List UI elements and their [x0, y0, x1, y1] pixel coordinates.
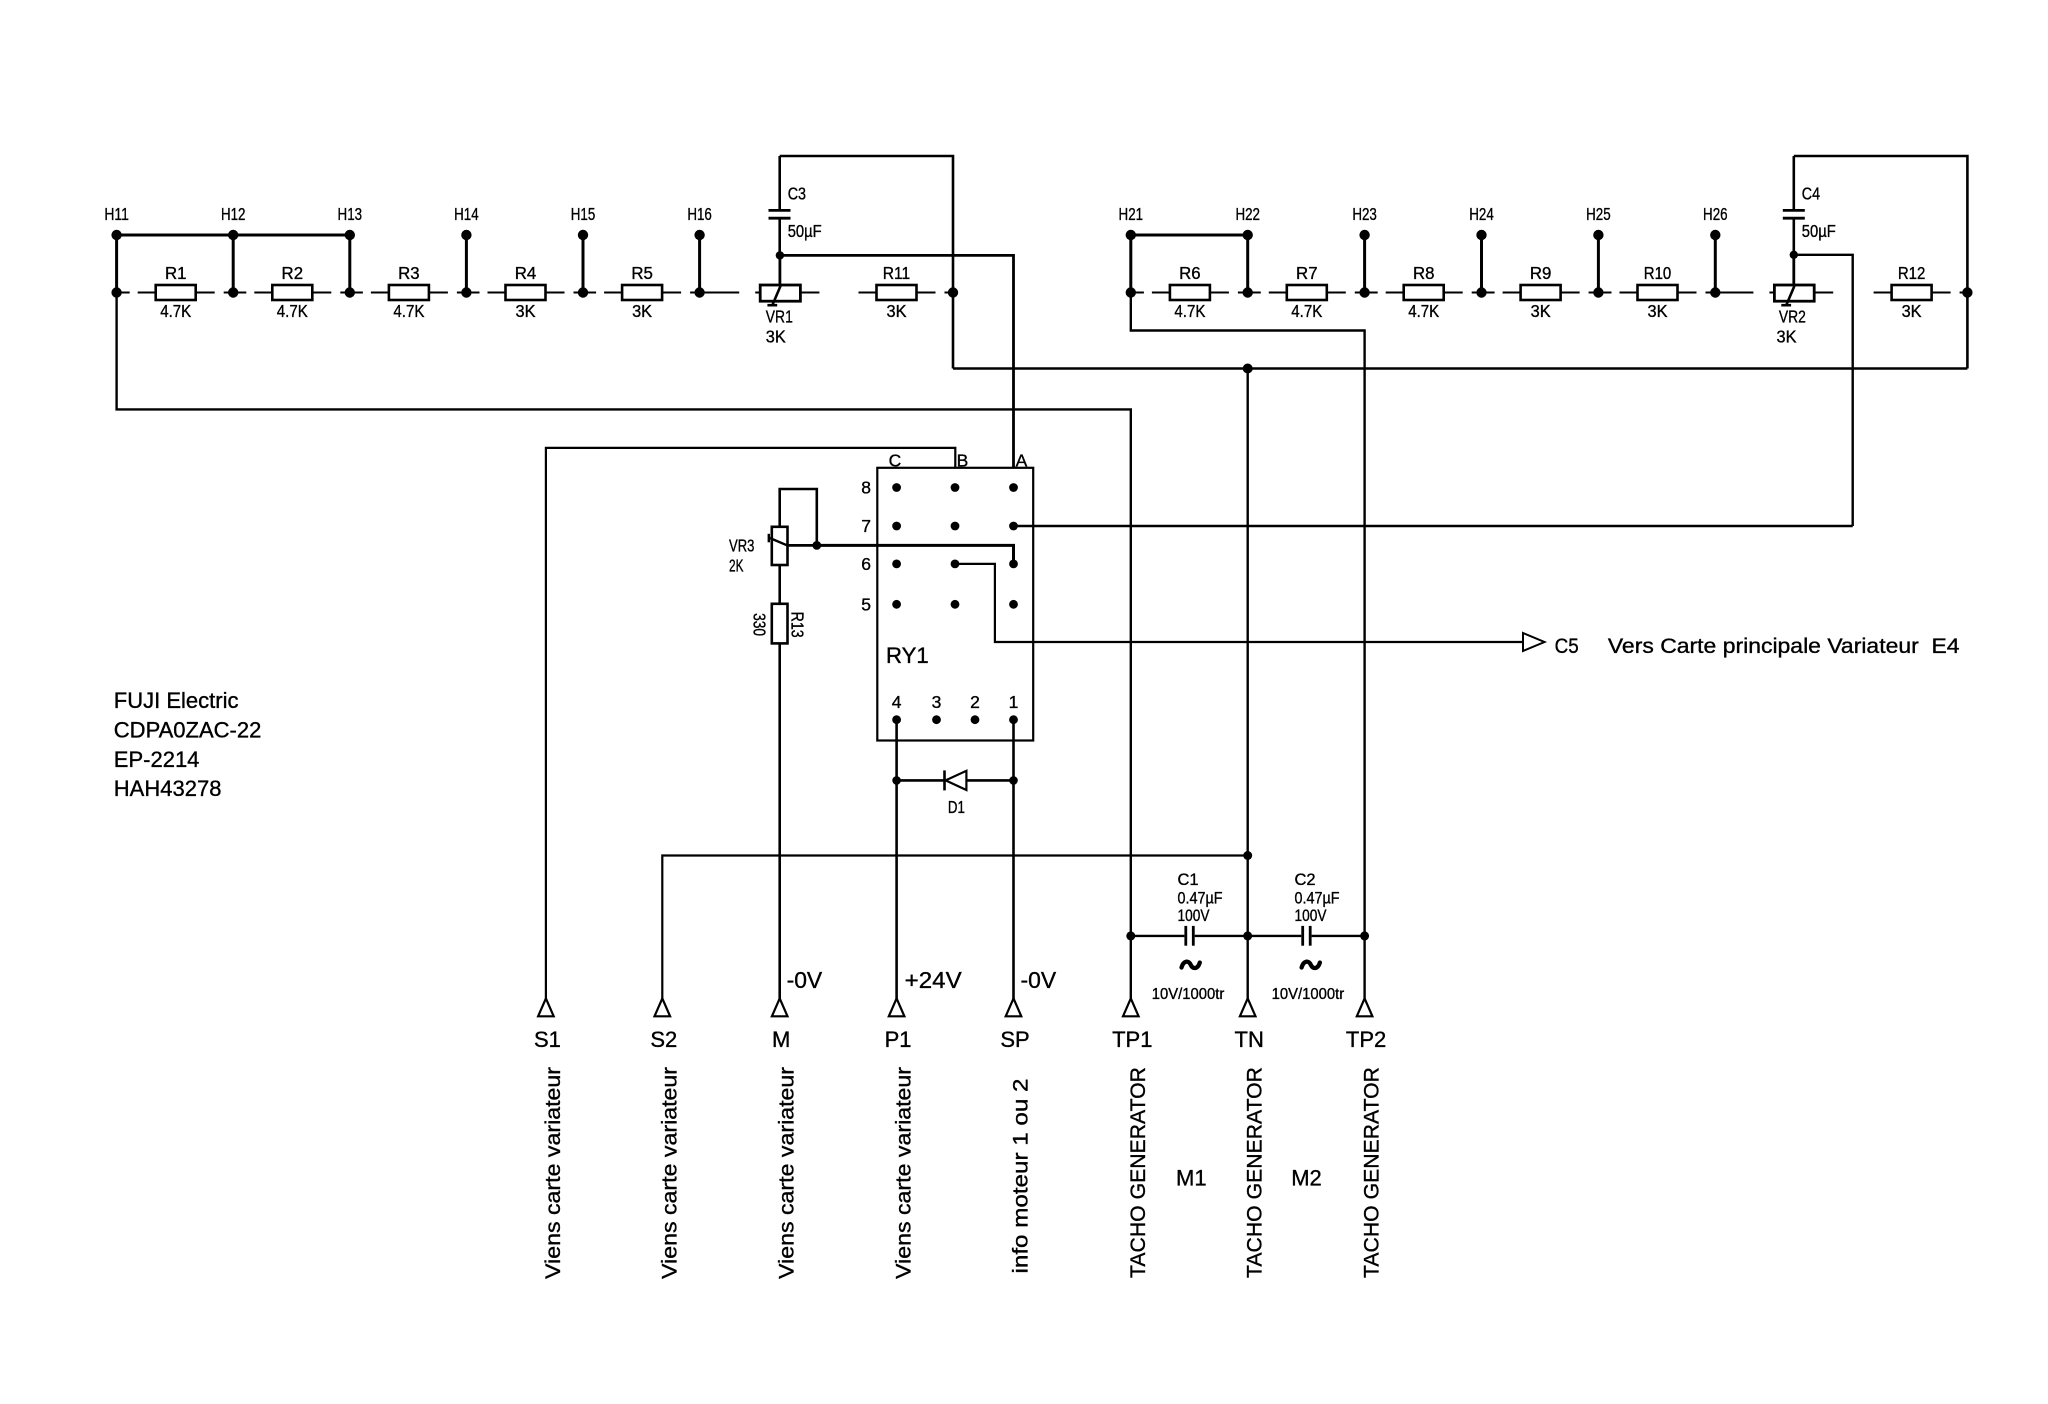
svg-text:2: 2	[970, 692, 980, 712]
svg-text:P1: P1	[885, 1027, 912, 1052]
svg-text:SP: SP	[1000, 1027, 1029, 1052]
svg-text:TACHO GENERATOR: TACHO GENERATOR	[1244, 1067, 1267, 1278]
svg-text:Viens carte variateur: Viens carte variateur	[658, 1067, 681, 1279]
node: rail junction to TN	[1243, 364, 1253, 374]
node H15	[571, 204, 596, 298]
svg-text:2K: 2K	[729, 556, 744, 576]
svg-text:50µF: 50µF	[788, 221, 822, 241]
svg-text:H23: H23	[1352, 204, 1377, 224]
wire: relay B6 to C5 output	[955, 564, 1523, 642]
svg-text:+24V: +24V	[905, 967, 963, 993]
capacitor C2	[1295, 871, 1340, 946]
node H11	[104, 204, 129, 298]
svg-text:R7: R7	[1296, 263, 1318, 283]
node H25	[1586, 204, 1611, 298]
svg-text:TP2: TP2	[1346, 1027, 1386, 1052]
svg-text:R3: R3	[398, 263, 420, 283]
node: S2/TN junction	[1243, 851, 1252, 860]
wire: relay pin 1 to SP	[1012, 720, 1015, 999]
svg-text:6: 6	[861, 554, 871, 574]
terminal TN	[1235, 998, 1264, 1052]
svg-text:H15: H15	[571, 204, 596, 224]
node: C4 / VR2 wiper junction	[1790, 251, 1798, 259]
svg-text:H25: H25	[1586, 204, 1611, 224]
svg-text:H26: H26	[1703, 204, 1728, 224]
svg-text:0.47µF: 0.47µF	[1295, 889, 1340, 907]
svg-text:S2: S2	[650, 1027, 677, 1052]
wire: H11 to TP1	[117, 293, 1131, 1000]
wire: S2 to TN junction	[662, 856, 1247, 1000]
svg-text:8: 8	[861, 478, 871, 498]
svg-text:D1: D1	[948, 797, 965, 817]
svg-text:0.47µF: 0.47µF	[1178, 889, 1223, 907]
capacitor C3	[769, 156, 822, 255]
svg-text:10V/1000tr: 10V/1000tr	[1272, 986, 1345, 1003]
terminal SP	[1000, 998, 1029, 1052]
wire: right resistor chain bus	[1131, 292, 1968, 294]
svg-text:C4: C4	[1802, 184, 1821, 204]
wire: relay pin 4 to P1	[895, 720, 898, 999]
svg-text:M: M	[772, 1027, 790, 1052]
svg-text:VR1: VR1	[766, 307, 793, 327]
svg-text:R10: R10	[1644, 263, 1672, 283]
resistor R9	[1521, 263, 1561, 321]
resistor R5	[622, 263, 662, 321]
svg-text:1: 1	[1009, 692, 1019, 712]
svg-text:H22: H22	[1235, 204, 1260, 224]
node H26	[1703, 204, 1728, 298]
svg-text:7: 7	[861, 516, 871, 536]
svg-text:H16: H16	[687, 204, 712, 224]
svg-text:H12: H12	[221, 204, 246, 224]
resistor R7	[1287, 263, 1327, 321]
svg-text:4: 4	[892, 692, 902, 712]
svg-text:C1: C1	[1178, 871, 1199, 889]
connector C5 output arrow	[1523, 633, 1579, 658]
svg-text:4.7K: 4.7K	[277, 301, 308, 321]
wire: D1 link	[897, 779, 1014, 782]
capacitor C1	[1178, 871, 1223, 946]
diode D1	[945, 770, 967, 817]
svg-text:R12: R12	[1898, 263, 1926, 283]
svg-text:3K: 3K	[1777, 327, 1797, 347]
node H13	[338, 204, 363, 298]
svg-text:C: C	[889, 451, 902, 471]
wire: C4 top frame to bus junction	[1794, 156, 1973, 298]
potentiometer VR2	[1774, 255, 1814, 347]
svg-text:VR2: VR2	[1779, 307, 1806, 327]
terminal S2	[650, 998, 677, 1052]
node: TN/C1/C2 junction	[1243, 931, 1252, 940]
svg-text:CDPA0ZAC-22: CDPA0ZAC-22	[114, 717, 262, 742]
resistor R10	[1638, 263, 1678, 321]
capacitor C4	[1783, 156, 1836, 255]
wire: TN-TP2 cap link	[1248, 935, 1365, 937]
svg-text:H13: H13	[338, 204, 363, 224]
svg-text:TN: TN	[1235, 1027, 1264, 1052]
svg-text:R5: R5	[631, 263, 653, 283]
node: TP1/C1 junction	[1126, 931, 1135, 940]
relay RY1 box	[877, 468, 1033, 741]
svg-text:H21: H21	[1119, 204, 1144, 224]
potentiometer VR1	[760, 255, 800, 346]
relay row labels 8 7 6 5	[861, 478, 871, 615]
wire: C4 junction to relay pin A7 line	[1794, 255, 1853, 526]
resistor R8	[1404, 263, 1444, 321]
svg-text:330: 330	[749, 613, 769, 636]
wire: C3 junction to relay pin A8	[780, 255, 1014, 487]
terminal M	[772, 998, 790, 1052]
svg-text:3K: 3K	[1531, 301, 1551, 321]
node: D1 anode junction	[1009, 776, 1018, 785]
svg-text:Viens carte variateur: Viens carte variateur	[542, 1067, 565, 1279]
wire: S1 to relay pin B8	[546, 448, 955, 999]
wire: left resistor chain bus	[117, 292, 953, 294]
svg-text:R9: R9	[1530, 263, 1552, 283]
terminal S1	[534, 998, 561, 1052]
potentiometer VR3	[729, 489, 817, 576]
resistor R1	[156, 263, 196, 321]
wire: VR3 wiper to relay A6	[817, 545, 1014, 564]
svg-text:H24: H24	[1469, 204, 1494, 224]
svg-text:4.7K: 4.7K	[1291, 301, 1322, 321]
svg-text:RY1: RY1	[886, 643, 929, 668]
svg-text:4.7K: 4.7K	[1174, 301, 1205, 321]
wire: C3 top frame to bus junction	[780, 156, 959, 298]
resistor R3	[389, 263, 429, 321]
svg-text:C2: C2	[1295, 871, 1316, 889]
node H24	[1469, 204, 1494, 298]
svg-text:Vers Carte principale Variateu: Vers Carte principale Variateur E4	[1608, 635, 1960, 658]
svg-text:50µF: 50µF	[1802, 221, 1836, 241]
label: FUJI Electric block	[114, 688, 262, 801]
relay coil pin labels 4 3 2 1	[892, 692, 1019, 712]
svg-text:info moteur 1 ou 2: info moteur 1 ou 2	[1010, 1079, 1033, 1274]
resistor R11	[877, 263, 917, 321]
svg-text:A: A	[1016, 451, 1028, 471]
node H16	[687, 204, 712, 298]
svg-text:B: B	[957, 451, 969, 471]
svg-text:TP1: TP1	[1112, 1027, 1152, 1052]
svg-text:-0V: -0V	[1021, 967, 1057, 993]
svg-text:R8: R8	[1413, 263, 1435, 283]
svg-text:R6: R6	[1179, 263, 1201, 283]
svg-text:M2: M2	[1291, 1166, 1322, 1191]
resistor R4	[506, 263, 546, 321]
svg-text:R2: R2	[282, 263, 304, 283]
svg-text:3K: 3K	[1648, 301, 1668, 321]
svg-text:3K: 3K	[887, 301, 907, 321]
node: VR3 wiper junction	[812, 541, 821, 550]
svg-text:10V/1000tr: 10V/1000tr	[1152, 986, 1225, 1003]
wire: C3/C4 frame bottom rail	[953, 293, 1967, 369]
wire: H21 to TP2	[1131, 293, 1365, 1000]
wire: VR3 to R13	[778, 565, 781, 604]
svg-text:Viens carte variateur: Viens carte variateur	[776, 1067, 799, 1279]
node: C3 / VR1 wiper junction	[776, 251, 784, 259]
svg-text:R4: R4	[515, 263, 537, 283]
svg-text:100V: 100V	[1295, 907, 1327, 925]
resistor R2	[272, 263, 312, 321]
svg-text:Viens carte variateur: Viens carte variateur	[893, 1067, 916, 1279]
svg-text:5: 5	[861, 594, 871, 614]
svg-text:VR3: VR3	[729, 536, 754, 556]
svg-text:R11: R11	[883, 263, 911, 283]
wire: relay A7 to VR2 wiper line	[1014, 525, 1853, 527]
svg-text:C5: C5	[1555, 635, 1579, 658]
node: D1 cathode junction	[892, 776, 901, 785]
svg-text:R1: R1	[165, 263, 187, 283]
AC symbol M1	[1182, 962, 1200, 968]
wire: TP1-TN cap link	[1131, 935, 1248, 937]
svg-text:4.7K: 4.7K	[393, 301, 424, 321]
svg-text:M1: M1	[1176, 1166, 1207, 1191]
svg-text:100V: 100V	[1178, 907, 1210, 925]
node H23	[1352, 204, 1377, 298]
node H21	[1119, 204, 1144, 298]
svg-text:4.7K: 4.7K	[160, 301, 191, 321]
node H14	[454, 204, 479, 298]
svg-text:R13: R13	[788, 612, 808, 638]
relay coil pins 4 3 2 1	[892, 715, 1018, 724]
terminal P1	[885, 998, 912, 1052]
wire: rail junction down to TN	[1246, 369, 1248, 1000]
svg-text:-0V: -0V	[787, 967, 823, 993]
resistor R12	[1892, 263, 1932, 321]
svg-text:H14: H14	[454, 204, 479, 224]
svg-text:3K: 3K	[1902, 301, 1922, 321]
resistor R6	[1170, 263, 1210, 321]
AC symbol M2	[1302, 962, 1320, 968]
svg-text:H11: H11	[104, 204, 129, 224]
node H12	[221, 204, 246, 298]
terminal TP1	[1112, 998, 1152, 1052]
wire: R13 to M terminal	[778, 643, 781, 999]
terminal TP2	[1346, 998, 1386, 1052]
svg-text:S1: S1	[534, 1027, 561, 1052]
svg-text:EP-2214: EP-2214	[114, 747, 200, 772]
svg-text:3K: 3K	[766, 327, 786, 347]
node: TP2/C2 junction	[1360, 931, 1369, 940]
relay contact pins (rows 8-5)	[892, 483, 1018, 609]
resistor R13	[749, 604, 807, 644]
svg-text:4.7K: 4.7K	[1408, 301, 1439, 321]
wire: H21-H22 top link	[1131, 234, 1248, 237]
svg-text:C3: C3	[788, 184, 806, 204]
svg-text:3K: 3K	[516, 301, 536, 321]
wire: H11-H12-H13 top link	[117, 234, 350, 237]
svg-text:TACHO GENERATOR: TACHO GENERATOR	[1127, 1067, 1150, 1278]
svg-text:HAH43278: HAH43278	[114, 776, 222, 801]
svg-text:3: 3	[932, 692, 942, 712]
relay column labels C B A	[889, 451, 1028, 471]
svg-text:FUJI Electric: FUJI Electric	[114, 688, 239, 713]
node H22	[1235, 204, 1260, 298]
svg-text:3K: 3K	[632, 301, 652, 321]
svg-text:TACHO GENERATOR: TACHO GENERATOR	[1361, 1067, 1384, 1278]
